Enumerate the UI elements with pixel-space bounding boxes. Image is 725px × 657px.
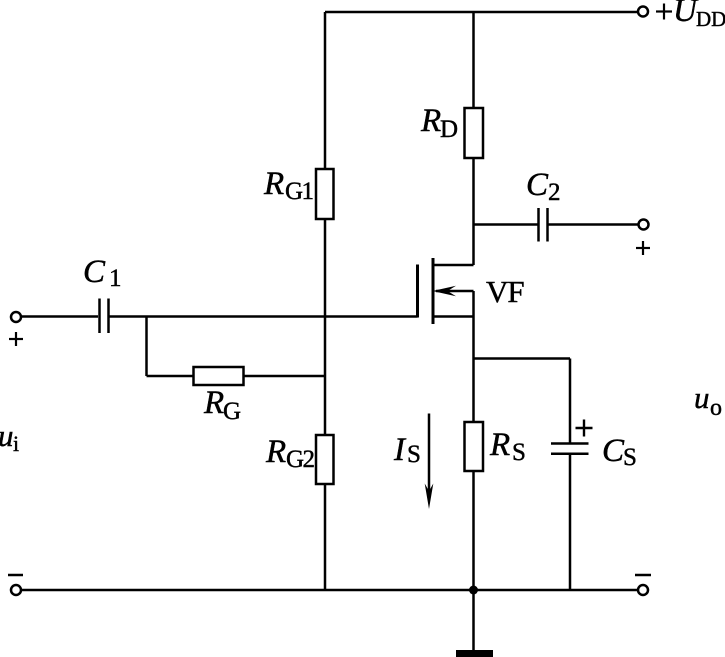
resistor RG2: [316, 435, 334, 484]
wire bottom rail: [22, 589, 638, 592]
svg-text:G: G: [223, 398, 241, 425]
junction source node dot: [469, 586, 478, 595]
transistor VF drain lead: [433, 264, 474, 267]
wire gate-bias vertical branch: [324, 12, 327, 590]
wire input terminal to C1: [22, 315, 99, 318]
svg-text:2: 2: [548, 179, 561, 206]
label RG1: [263, 166, 313, 205]
label CS plus: [576, 420, 593, 437]
terminal input: [11, 312, 21, 322]
label input plus: [9, 332, 23, 346]
svg-text:R: R: [263, 166, 284, 202]
terminal input minus: [11, 585, 21, 595]
svg-text:VF: VF: [486, 274, 524, 309]
resistor RG1: [316, 169, 334, 219]
label RG: [203, 385, 241, 425]
svg-text:R: R: [203, 385, 224, 421]
svg-text:I: I: [393, 432, 407, 468]
current arrow IS head: [425, 484, 434, 510]
wire input branch down: [145, 317, 148, 377]
svg-text:D: D: [440, 116, 458, 143]
svg-text:S: S: [407, 441, 421, 468]
wire RS to ground rail: [472, 471, 475, 590]
label C1: [83, 254, 122, 292]
ground bar: [456, 650, 493, 657]
svg-text:R: R: [265, 434, 286, 470]
svg-text:u: u: [0, 418, 14, 453]
svg-text:u: u: [694, 380, 710, 415]
resistor RD: [465, 108, 484, 158]
label RD: [420, 103, 458, 143]
wire CS bottom: [569, 455, 572, 590]
svg-text:S: S: [512, 439, 526, 466]
svg-text:R: R: [420, 103, 441, 139]
resistor RG: [194, 367, 244, 385]
wire top supply rail: [325, 11, 638, 14]
label IS: [393, 432, 421, 468]
wire drain node to C2: [474, 223, 538, 226]
svg-text:G1: G1: [285, 178, 313, 205]
capacitor C2: [539, 208, 548, 242]
current arrow IS line: [428, 414, 431, 498]
wire RG to bias node: [244, 375, 326, 378]
label C2: [526, 167, 561, 206]
resistor RS: [465, 422, 484, 471]
terminal output: [639, 220, 649, 230]
svg-text:R: R: [489, 427, 510, 463]
svg-text:o: o: [710, 395, 722, 421]
label output plus: [636, 241, 650, 255]
svg-text:C: C: [602, 433, 625, 469]
svg-text:1: 1: [109, 265, 122, 292]
wire source to CS branch: [474, 357, 571, 360]
capacitor CS: [551, 444, 589, 454]
svg-text:C: C: [526, 167, 549, 203]
label output minus: [635, 574, 651, 577]
terminal output minus: [638, 585, 648, 595]
label uo: [694, 380, 722, 421]
ground stub: [472, 590, 475, 650]
svg-text:DD: DD: [696, 7, 725, 31]
wire CS top: [569, 359, 572, 443]
wire C1 to gate: [110, 315, 418, 318]
label input minus: [8, 574, 23, 577]
svg-text:C: C: [83, 254, 106, 290]
transistor VF source lead: [433, 315, 474, 318]
label CS: [602, 433, 637, 471]
svg-text:G2: G2: [286, 446, 315, 473]
terminal +UDD: [638, 7, 648, 17]
capacitor C1: [100, 299, 109, 334]
label ui: [0, 418, 19, 456]
transistor VF gate bar: [416, 265, 419, 318]
label RG2: [265, 434, 315, 473]
svg-text:S: S: [623, 444, 637, 471]
wire branch to RG: [147, 375, 194, 378]
transistor VF channel bar: [432, 258, 435, 324]
wire source vertical: [472, 291, 475, 422]
svg-text:i: i: [13, 431, 19, 456]
wire C2 to output terminal: [549, 223, 638, 226]
transistor VF body lead: [436, 290, 474, 293]
label +UDD plus sign: [656, 4, 672, 20]
wire drain vertical branch: [472, 12, 475, 265]
label RS: [489, 427, 526, 466]
transistor VF body arrowhead: [433, 286, 457, 296]
